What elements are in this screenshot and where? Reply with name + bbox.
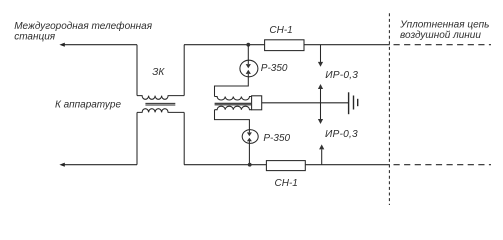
wire: line transformer bottom winding left end down / right / down to arrester P-350 (bottom) xyxy=(215,110,250,130)
wire: top line middle segment xyxy=(184,44,265,46)
svg-text:воздушной линии: воздушной линии xyxy=(400,30,481,41)
wire: ZK top winding right end up to top line xyxy=(183,45,185,96)
wire: ZK bottom winding left end down to bottom line xyxy=(136,112,138,164)
line transformer core xyxy=(215,103,251,105)
aerial line wire b (dashed continuation, bottom) xyxy=(394,164,492,166)
ground xyxy=(348,92,350,114)
drainage coil CH-1 bottom: box xyxy=(266,161,305,171)
svg-text:Междугородная телефонная: Междугородная телефонная xyxy=(14,20,153,32)
label: Междугородная телефонная станция xyxy=(14,20,153,43)
wire: junction down to arrester P-350 (top) xyxy=(247,45,249,61)
spark gap IR-0,3: double electrode on midpoint line xyxy=(320,89,322,120)
spark gap IR-0,3 top: electrode from top line xyxy=(320,45,322,62)
aerial line wire a (dashed continuation, top) xyxy=(394,44,492,46)
wire: top line left segment xyxy=(64,44,138,46)
drainage coil CH-1 top: box xyxy=(265,40,304,51)
wire: top line down to ZK top winding xyxy=(136,45,138,96)
svg-text:ЗК: ЗК xyxy=(152,67,165,78)
wire: bottom line left segment xyxy=(64,164,138,166)
arrester P-350 bottom: upper electrode xyxy=(248,130,250,132)
junction dot on bottom line xyxy=(248,163,252,167)
arrow to station (top wire, left end) xyxy=(59,43,64,47)
wire: arrester bottom down to bottom line xyxy=(248,143,250,165)
label: Уплотненная цепь воздушной линии xyxy=(399,19,489,40)
svg-text:ИР-0,3: ИР-0,3 xyxy=(325,70,358,81)
wire: arrester down / left / down to line transformer top winding xyxy=(215,77,249,97)
arrester P-350 top: envelope circle xyxy=(240,60,258,77)
transformer ZK bottom winding xyxy=(137,109,184,113)
transformer ZK top winding xyxy=(137,96,184,100)
svg-text:ИР-0,3: ИР-0,3 xyxy=(325,129,358,140)
wire: midpoint line to ground xyxy=(262,102,349,104)
line transformer bottom winding xyxy=(215,106,252,110)
wire: top line right segment xyxy=(304,44,390,46)
arrow to equipment (bottom wire, left end) xyxy=(59,163,64,167)
svg-text:СН-1: СН-1 xyxy=(269,25,292,36)
svg-text:СН-1: СН-1 xyxy=(275,178,298,189)
arrester P-350 bottom: envelope circle xyxy=(242,130,258,144)
wire: bottom line middle segment xyxy=(184,164,266,166)
wire: bottom line right segment xyxy=(305,164,390,166)
transformer ZK core xyxy=(145,103,175,105)
svg-text:К аппаратуре: К аппаратуре xyxy=(55,99,121,110)
spark gap IR-0,3 bottom: electrode from bottom line xyxy=(321,150,323,165)
boundary of aerial line zone (vertical dashed) xyxy=(388,13,390,205)
svg-text:станция: станция xyxy=(14,31,56,42)
svg-text:Р-350: Р-350 xyxy=(263,133,290,144)
arrester P-350 top: lower electrode xyxy=(247,74,249,77)
arrester P-350 bottom: lower electrode xyxy=(248,141,250,143)
wire: ZK bottom winding right end down to bottom line xyxy=(183,112,185,164)
balancing resistor box of line transformer xyxy=(252,96,262,110)
line transformer top winding xyxy=(215,97,252,101)
junction dot on top line xyxy=(246,43,250,47)
svg-text:Р-350: Р-350 xyxy=(261,63,288,74)
svg-text:Уплотненная цепь: Уплотненная цепь xyxy=(399,19,489,30)
arrester P-350 top: upper electrode xyxy=(247,61,249,65)
